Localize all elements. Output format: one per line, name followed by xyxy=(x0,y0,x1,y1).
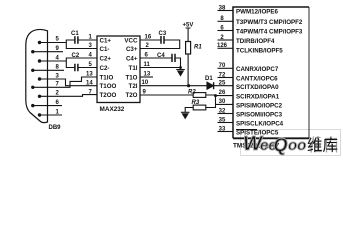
svg-text:CANRX/IOPC7: CANRX/IOPC7 xyxy=(236,66,279,73)
wire junction to DSP pin26 xyxy=(216,95,234,97)
svg-text:C2+: C2+ xyxy=(100,55,112,62)
svg-text:T2I: T2I xyxy=(129,83,138,90)
wire pin126 xyxy=(218,47,234,49)
wire DB9 pin5 xyxy=(40,42,67,44)
svg-text:C2: C2 xyxy=(72,53,80,59)
svg-text:7: 7 xyxy=(56,82,60,88)
wire DB9 pin2 to MAX232 pin7 xyxy=(40,95,98,97)
svg-text:16: 16 xyxy=(145,35,152,41)
wire pin13 T1O stub xyxy=(140,76,153,78)
wire pin2 xyxy=(218,39,234,41)
svg-text:11: 11 xyxy=(144,62,151,68)
MAX232 right pin wires xyxy=(140,40,207,95)
capacitor C3 plates xyxy=(161,36,164,44)
wire pin70 xyxy=(218,67,234,69)
wire pin32 xyxy=(218,113,234,115)
IC U1 MAX232 body xyxy=(97,36,140,103)
svg-text:14: 14 xyxy=(86,80,93,86)
capacitor C4 plates xyxy=(172,54,175,62)
junction node rail/pin10 xyxy=(187,84,190,87)
watermark box xyxy=(241,130,341,156)
svg-text:TDIRB/IOPF4: TDIRB/IOPF4 xyxy=(236,38,275,45)
svg-text:5: 5 xyxy=(56,37,60,43)
wire R3 right side up to junction xyxy=(206,96,216,108)
svg-text:C2-: C2- xyxy=(100,65,110,72)
svg-text:72: 72 xyxy=(219,72,226,78)
svg-text:T1O: T1O xyxy=(125,74,137,81)
wire pin8 xyxy=(218,20,234,22)
svg-text:10: 10 xyxy=(142,80,149,86)
wire pin1 / capacitor C1 loop top xyxy=(66,40,97,49)
ground for C4 xyxy=(176,70,185,76)
svg-text:3: 3 xyxy=(56,73,60,79)
svg-text:1: 1 xyxy=(56,109,60,115)
svg-text:13: 13 xyxy=(86,72,93,78)
svg-text:R1: R1 xyxy=(194,45,202,51)
svg-text:9: 9 xyxy=(56,46,60,52)
svg-text:oo: oo xyxy=(288,137,306,154)
resistor R3 (horizontal box) xyxy=(193,105,206,110)
svg-text:PWM12/IOPE6: PWM12/IOPE6 xyxy=(236,9,279,16)
DB9 pin dots xyxy=(31,41,41,117)
svg-text:D1: D1 xyxy=(205,76,213,82)
svg-text:T2O: T2O xyxy=(125,92,137,99)
wire pin11 T1I joins C4 ground stem xyxy=(140,67,181,69)
wire R1 bottom to D1 line xyxy=(187,54,189,86)
ground for R3 xyxy=(181,112,190,118)
svg-text:SPISIMO/IOPC2: SPISIMO/IOPC2 xyxy=(236,102,283,109)
svg-text:T2OO: T2OO xyxy=(100,92,117,99)
svg-text:35: 35 xyxy=(219,117,226,123)
wire pin9 T2O to R2 xyxy=(140,94,193,96)
svg-text:DB9: DB9 xyxy=(49,125,62,131)
connector J1 DB9 body xyxy=(26,29,48,122)
wire pin10 T2I to D1 line xyxy=(140,85,207,87)
wire pin35 xyxy=(218,122,234,124)
IC U2 TMS320LF2407 body xyxy=(233,7,309,138)
svg-text:SPISCLK/IOPC4: SPISCLK/IOPC4 xyxy=(236,121,284,128)
capacitor C1 plates xyxy=(75,36,78,44)
wire DB9 pin3 to MAX232 pin14 xyxy=(40,79,98,86)
wire pin6 xyxy=(218,30,234,32)
junction node R2/R3/pin26 xyxy=(214,94,217,97)
svg-text:33: 33 xyxy=(219,126,226,132)
wire DB9 pin8 xyxy=(33,69,64,71)
svg-text:25: 25 xyxy=(219,80,226,86)
svg-text:C1: C1 xyxy=(71,31,79,37)
wire vertical junction to DSP pin30 xyxy=(216,103,234,105)
wire pin6 C4+ to capacitor C4 xyxy=(140,58,181,69)
wire DB9 pin9 xyxy=(33,51,63,53)
svg-text:VCC: VCC xyxy=(124,37,138,44)
svg-text:26: 26 xyxy=(219,90,226,96)
svg-text:32: 32 xyxy=(219,108,226,114)
wire R3 left to ground xyxy=(185,108,193,113)
diode D1 xyxy=(207,82,233,89)
svg-text:8: 8 xyxy=(56,65,60,71)
MAX232 left pin wires xyxy=(66,40,97,68)
svg-text:T1OO: T1OO xyxy=(100,83,117,90)
DSP pin numbers xyxy=(217,5,228,132)
wire pin4 / capacitor C2 loop xyxy=(66,58,97,68)
svg-text:C3+: C3+ xyxy=(126,46,138,53)
watermark WeeQoo logo xyxy=(243,133,306,155)
svg-text:T4PWM/T4 CMP/IOPF3: T4PWM/T4 CMP/IOPF3 xyxy=(236,28,303,35)
svg-text:SCITXD/IOPA0: SCITXD/IOPA0 xyxy=(236,84,279,91)
capacitor C2 plates xyxy=(75,64,78,72)
svg-text:38: 38 xyxy=(219,5,226,11)
watermark WeeQoo logo xyxy=(243,133,306,155)
svg-text:SPISOMI/IOPC3: SPISOMI/IOPC3 xyxy=(236,112,283,119)
svg-text:TCLKINB/IOPF5: TCLKINB/IOPF5 xyxy=(236,47,283,54)
svg-text:CANTX/IOPC6: CANTX/IOPC6 xyxy=(236,75,278,82)
svg-text:T1IO: T1IO xyxy=(100,74,114,81)
svg-text:126: 126 xyxy=(217,43,228,49)
wire pin72 xyxy=(218,77,234,79)
svg-text:Q: Q xyxy=(274,135,288,155)
DSP group1 pin wires xyxy=(218,11,234,132)
wire pin38 xyxy=(218,10,234,12)
wire DB9 pin4 xyxy=(40,60,67,62)
wire DB9 pin6 xyxy=(33,105,62,107)
svg-text:4: 4 xyxy=(56,55,60,61)
wire pin33 xyxy=(218,131,234,133)
svg-text:SCIRXD/IOPA1: SCIRXD/IOPA1 xyxy=(236,93,280,100)
svg-text:R2: R2 xyxy=(188,90,196,96)
junction node pin11/C4 xyxy=(179,66,182,69)
svg-text:维库: 维库 xyxy=(307,137,338,155)
svg-text:C1+: C1+ xyxy=(100,37,112,44)
svg-text:2: 2 xyxy=(56,91,60,97)
watermark 维库 (drawn strokes) xyxy=(309,136,338,153)
svg-text:T1I: T1I xyxy=(129,65,138,72)
overline for SPISTE xyxy=(236,129,257,131)
svg-text:T3PWM/T3 CMP/IOPF2: T3PWM/T3 CMP/IOPF2 xyxy=(236,19,303,26)
resistor R2 (horizontal box) xyxy=(193,93,206,98)
svg-text:30: 30 xyxy=(219,99,226,105)
wire R2 right to junction xyxy=(206,94,216,97)
wire DB9 pin7 to MAX232 pin13 xyxy=(33,77,97,87)
svg-text:70: 70 xyxy=(219,63,226,69)
resistor R1 (vertical box) xyxy=(186,42,191,55)
svg-text:C3: C3 xyxy=(159,31,167,37)
svg-text:C4: C4 xyxy=(157,53,165,59)
wire pin16 VCC / capacitor C3 loop to pin2 xyxy=(140,40,180,49)
svg-text:C4+: C4+ xyxy=(126,55,138,62)
svg-text:MAX232: MAX232 xyxy=(100,106,125,113)
wire DB9 pin1 xyxy=(40,114,63,116)
svg-text:13: 13 xyxy=(144,72,151,78)
svg-text:R3: R3 xyxy=(192,100,200,106)
svg-text:C1-: C1- xyxy=(100,46,110,53)
